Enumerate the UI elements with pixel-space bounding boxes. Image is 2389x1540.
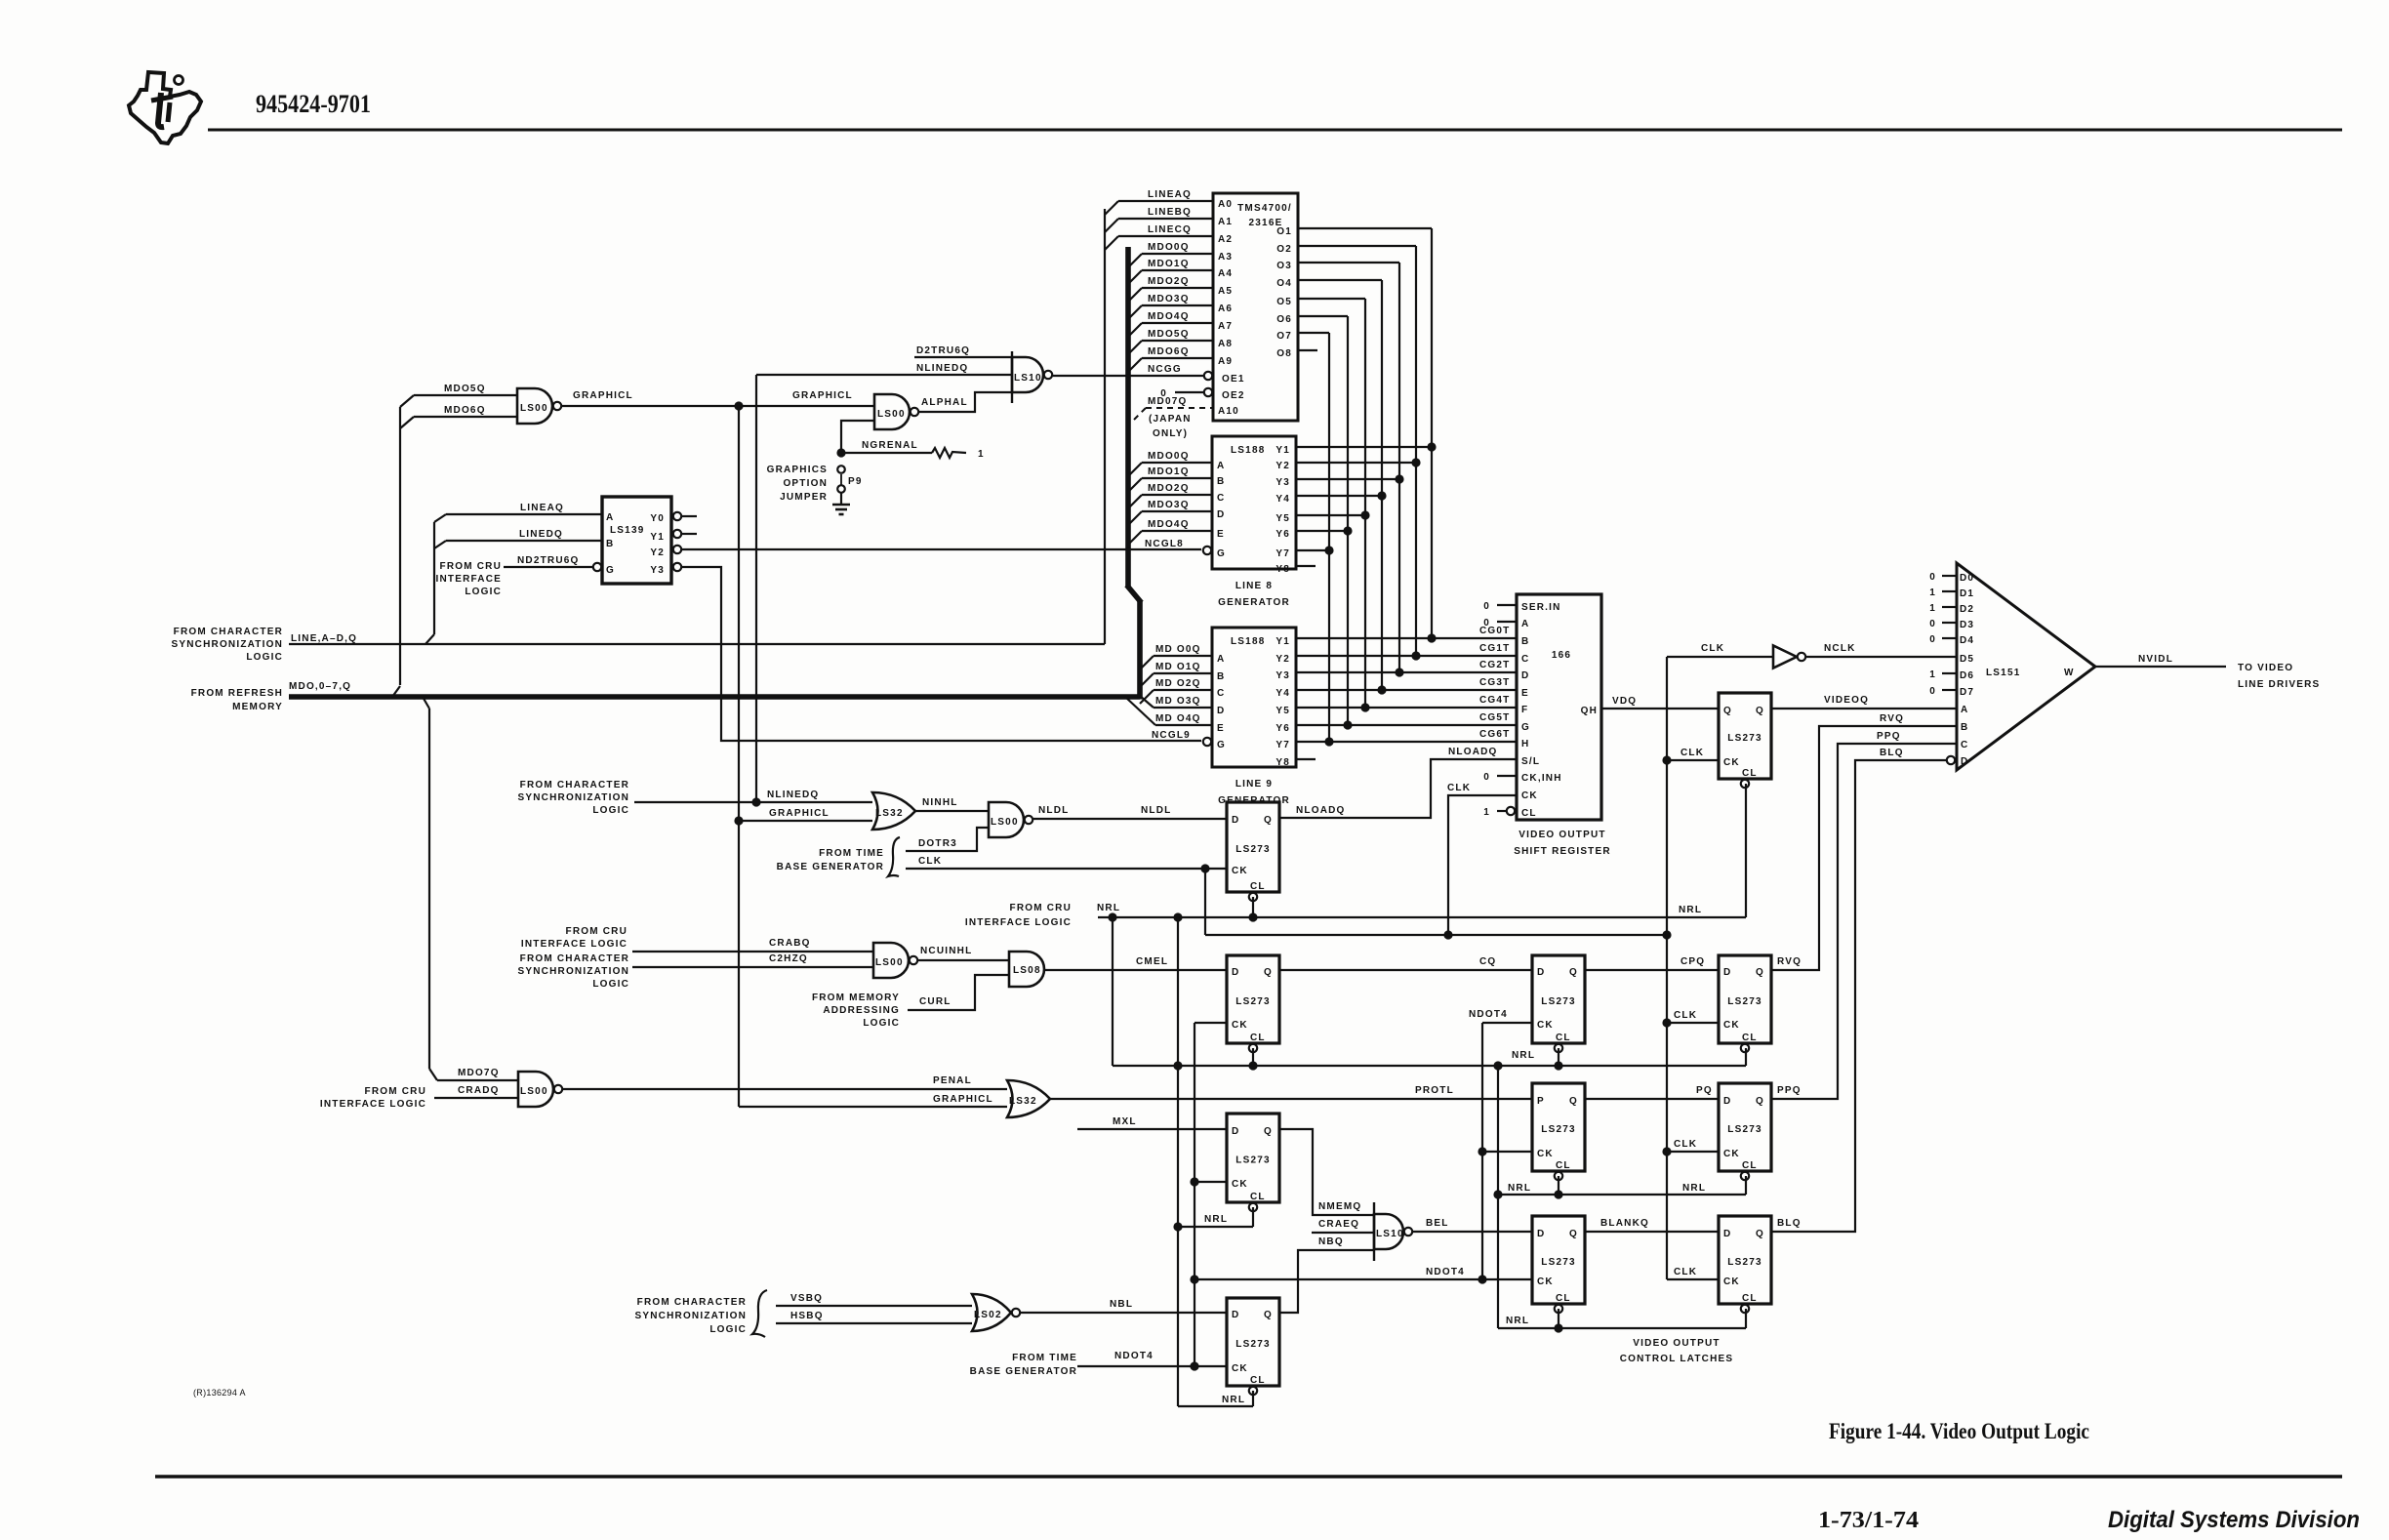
svg-text:LS273: LS273	[1235, 844, 1270, 855]
svg-text:CL: CL	[1250, 1192, 1266, 1202]
svg-text:MD O3Q: MD O3Q	[1155, 696, 1201, 707]
svg-text:BLQ: BLQ	[1880, 748, 1904, 758]
svg-text:Y5: Y5	[1275, 706, 1290, 716]
svg-text:MDO2Q: MDO2Q	[1148, 483, 1190, 494]
svg-text:FROM CHARACTER: FROM CHARACTER	[174, 627, 283, 637]
svg-text:GRAPHICL: GRAPHICL	[573, 390, 633, 401]
svg-text:C2HZQ: C2HZQ	[769, 953, 808, 964]
svg-text:0: 0	[1929, 686, 1936, 697]
svg-text:Q: Q	[1569, 1229, 1578, 1239]
svg-text:1: 1	[1929, 588, 1936, 598]
svg-text:LINEDQ: LINEDQ	[519, 529, 563, 540]
svg-text:P9: P9	[848, 476, 863, 487]
svg-text:G: G	[606, 565, 615, 576]
svg-text:G: G	[1521, 722, 1530, 733]
svg-text:D3: D3	[1960, 620, 1974, 630]
svg-text:B: B	[606, 539, 614, 549]
svg-text:LINE DRIVERS: LINE DRIVERS	[2238, 679, 2320, 690]
svg-text:CLK: CLK	[1674, 1267, 1697, 1277]
svg-text:MDO7Q: MDO7Q	[458, 1068, 500, 1078]
svg-text:SYNCHRONIZATION: SYNCHRONIZATION	[518, 966, 629, 977]
svg-text:D5: D5	[1960, 654, 1974, 665]
svg-text:CL: CL	[1742, 1033, 1758, 1043]
svg-text:LS273: LS273	[1235, 1339, 1270, 1350]
svg-text:CL: CL	[1521, 808, 1537, 819]
svg-text:CLK: CLK	[1680, 748, 1704, 758]
svg-text:Q: Q	[1756, 1229, 1764, 1239]
svg-text:Q: Q	[1756, 1096, 1764, 1107]
svg-text:H: H	[1521, 739, 1529, 750]
svg-text:LS02: LS02	[974, 1310, 1002, 1320]
svg-text:P: P	[1537, 1096, 1545, 1107]
svg-text:FROM CRU: FROM CRU	[440, 561, 502, 572]
svg-text:LINE 9: LINE 9	[1235, 779, 1273, 790]
svg-text:0: 0	[1483, 601, 1490, 612]
svg-text:D1: D1	[1960, 588, 1974, 599]
svg-text:Y0: Y0	[650, 513, 665, 524]
svg-text:Y6: Y6	[1275, 723, 1290, 734]
svg-text:INTERFACE LOGIC: INTERFACE LOGIC	[320, 1099, 426, 1110]
svg-text:LS00: LS00	[991, 817, 1019, 828]
svg-text:MD O1Q: MD O1Q	[1155, 662, 1201, 672]
svg-text:MDO4Q: MDO4Q	[1148, 519, 1190, 530]
svg-text:LS273: LS273	[1235, 1155, 1270, 1166]
svg-text:Y4: Y4	[1275, 494, 1290, 505]
svg-text:OE1: OE1	[1222, 374, 1245, 385]
svg-text:GRAPHICL: GRAPHICL	[769, 808, 830, 819]
svg-text:MDO1Q: MDO1Q	[1148, 259, 1190, 269]
svg-text:S/L: S/L	[1521, 756, 1540, 767]
svg-text:Y2: Y2	[1275, 654, 1290, 665]
svg-text:D2: D2	[1960, 604, 1974, 615]
svg-text:VDQ: VDQ	[1612, 696, 1637, 707]
svg-text:NGRENAL: NGRENAL	[862, 440, 918, 451]
svg-text:CLK: CLK	[918, 856, 942, 867]
svg-text:A: A	[1217, 461, 1225, 471]
svg-text:D0: D0	[1960, 573, 1974, 584]
svg-text:LINECQ: LINECQ	[1148, 224, 1192, 235]
svg-text:D: D	[1723, 1096, 1731, 1107]
svg-text:Y1: Y1	[1275, 445, 1290, 456]
svg-text:MDO6Q: MDO6Q	[1148, 346, 1190, 357]
svg-text:NCGG: NCGG	[1148, 364, 1182, 375]
svg-text:FROM REFRESH: FROM REFRESH	[191, 688, 283, 699]
svg-text:CK: CK	[1232, 1020, 1248, 1031]
svg-text:A3: A3	[1218, 252, 1233, 263]
svg-text:Y3: Y3	[1275, 477, 1290, 488]
svg-text:1: 1	[978, 449, 985, 460]
svg-text:MDO0Q: MDO0Q	[1148, 242, 1190, 253]
svg-text:G: G	[1217, 740, 1226, 750]
svg-text:A7: A7	[1218, 321, 1233, 332]
svg-text:LS273: LS273	[1235, 996, 1270, 1007]
svg-text:D: D	[1537, 1229, 1545, 1239]
svg-text:CK: CK	[1723, 757, 1740, 768]
svg-text:INTERFACE: INTERFACE	[436, 574, 502, 585]
svg-text:Figure 1-44. Video Output Log: Figure 1-44. Video Output Logic	[1829, 1419, 2089, 1443]
svg-text:ONLY): ONLY)	[1153, 428, 1188, 439]
svg-text:BLQ: BLQ	[1777, 1218, 1802, 1229]
svg-text:MDO6Q: MDO6Q	[444, 405, 486, 416]
svg-text:ND2TRU6Q: ND2TRU6Q	[517, 555, 580, 566]
svg-text:(JAPAN: (JAPAN	[1149, 414, 1192, 425]
svg-text:CK: CK	[1232, 1363, 1248, 1374]
svg-text:O7: O7	[1276, 331, 1292, 342]
svg-text:CLK: CLK	[1674, 1139, 1697, 1150]
svg-text:LOGIC: LOGIC	[592, 805, 629, 816]
svg-text:Y8: Y8	[1275, 757, 1290, 768]
svg-text:CONTROL LATCHES: CONTROL LATCHES	[1620, 1354, 1734, 1364]
svg-text:D: D	[1217, 509, 1225, 520]
svg-text:C: C	[1217, 688, 1225, 699]
svg-text:0: 0	[1929, 619, 1936, 629]
svg-text:Y1: Y1	[650, 532, 665, 543]
svg-text:MXL: MXL	[1113, 1116, 1137, 1127]
svg-text:LS273: LS273	[1727, 1257, 1761, 1268]
svg-text:OPTION: OPTION	[783, 478, 828, 489]
svg-text:NRL: NRL	[1679, 905, 1702, 915]
svg-text:Q: Q	[1264, 1126, 1273, 1137]
svg-text:Y1: Y1	[1275, 636, 1290, 647]
svg-text:FROM MEMORY: FROM MEMORY	[812, 993, 900, 1003]
svg-text:VIDEOQ: VIDEOQ	[1824, 695, 1869, 706]
svg-text:CK: CK	[1232, 866, 1248, 876]
svg-text:A9: A9	[1218, 356, 1233, 367]
svg-text:Y7: Y7	[1275, 740, 1290, 750]
svg-text:INTERFACE LOGIC: INTERFACE LOGIC	[965, 917, 1072, 928]
svg-text:LS188: LS188	[1231, 445, 1265, 456]
svg-text:CG6T: CG6T	[1479, 729, 1510, 740]
svg-text:D: D	[1232, 815, 1239, 826]
svg-text:O6: O6	[1276, 314, 1292, 325]
svg-text:NRL: NRL	[1508, 1183, 1531, 1194]
svg-text:A1: A1	[1218, 217, 1233, 227]
svg-text:A0: A0	[1218, 199, 1233, 210]
svg-text:E: E	[1521, 688, 1529, 699]
svg-text:Y3: Y3	[650, 565, 665, 576]
svg-text:NLDL: NLDL	[1141, 805, 1171, 816]
svg-text:D: D	[1232, 1126, 1239, 1137]
svg-text:A: A	[606, 512, 614, 523]
svg-text:D2TRU6Q: D2TRU6Q	[916, 345, 970, 356]
svg-text:B: B	[1217, 476, 1225, 487]
svg-text:D: D	[1537, 967, 1545, 978]
svg-text:NLDL: NLDL	[1038, 805, 1069, 816]
svg-text:BLANKQ: BLANKQ	[1600, 1218, 1649, 1229]
svg-text:CK: CK	[1232, 1179, 1248, 1190]
svg-text:NLINEDQ: NLINEDQ	[767, 790, 819, 800]
svg-text:CK: CK	[1537, 1277, 1554, 1287]
svg-text:HSBQ: HSBQ	[790, 1311, 824, 1321]
svg-text:MD O2Q: MD O2Q	[1155, 678, 1201, 689]
svg-text:CL: CL	[1250, 1375, 1266, 1386]
svg-text:0: 0	[1929, 634, 1936, 645]
svg-text:Digital Systems Division: Digital Systems Division	[2108, 1507, 2360, 1533]
svg-text:LOGIC: LOGIC	[863, 1018, 900, 1029]
svg-text:LOGIC: LOGIC	[465, 587, 502, 597]
svg-text:CLK: CLK	[1674, 1010, 1697, 1021]
svg-text:TMS4700/: TMS4700/	[1237, 203, 1292, 214]
svg-text:LINEAQ: LINEAQ	[520, 503, 564, 513]
svg-text:LOGIC: LOGIC	[709, 1324, 747, 1335]
svg-text:LS273: LS273	[1727, 996, 1761, 1007]
svg-text:O8: O8	[1276, 348, 1292, 359]
svg-text:Y7: Y7	[1275, 548, 1290, 559]
svg-text:RVQ: RVQ	[1777, 956, 1802, 967]
svg-text:O4: O4	[1276, 278, 1292, 289]
svg-text:1: 1	[1929, 669, 1936, 680]
svg-text:NCUINHL: NCUINHL	[920, 946, 972, 956]
svg-text:SHIFT REGISTER: SHIFT REGISTER	[1514, 846, 1611, 857]
svg-text:CG3T: CG3T	[1479, 677, 1510, 688]
svg-text:GENERATOR: GENERATOR	[1218, 597, 1290, 608]
svg-text:FROM TIME: FROM TIME	[819, 848, 884, 859]
svg-text:A: A	[1521, 619, 1529, 629]
svg-text:CK: CK	[1521, 790, 1538, 801]
svg-text:LS32: LS32	[1009, 1096, 1037, 1107]
svg-text:RVQ: RVQ	[1880, 713, 1904, 724]
svg-text:D: D	[1521, 670, 1529, 681]
svg-text:B: B	[1521, 636, 1529, 647]
svg-text:MD O4Q: MD O4Q	[1155, 713, 1201, 724]
svg-text:CK,INH: CK,INH	[1521, 773, 1562, 784]
svg-text:NDOT4: NDOT4	[1426, 1267, 1465, 1277]
svg-text:LS151: LS151	[1986, 668, 2020, 678]
svg-text:PPQ: PPQ	[1777, 1085, 1802, 1096]
svg-text:NRL: NRL	[1512, 1050, 1535, 1061]
svg-text:LS00: LS00	[875, 957, 904, 968]
svg-text:PENAL: PENAL	[933, 1075, 972, 1086]
svg-text:PQ: PQ	[1696, 1085, 1713, 1096]
svg-text:Y4: Y4	[1275, 688, 1290, 699]
svg-text:Q: Q	[1569, 967, 1578, 978]
svg-text:LS10: LS10	[1014, 373, 1042, 384]
svg-text:NCGL8: NCGL8	[1145, 539, 1184, 549]
svg-text:FROM CRU: FROM CRU	[365, 1086, 426, 1097]
svg-text:NRL: NRL	[1506, 1316, 1529, 1326]
svg-text:D6: D6	[1960, 670, 1974, 681]
svg-text:MD O0Q: MD O0Q	[1155, 644, 1201, 655]
svg-text:Y2: Y2	[1275, 461, 1290, 471]
svg-text:MDO5Q: MDO5Q	[444, 384, 486, 394]
svg-text:QH: QH	[1581, 706, 1598, 716]
svg-text:CG5T: CG5T	[1479, 712, 1510, 723]
svg-text:LOGIC: LOGIC	[246, 652, 283, 663]
svg-text:0: 0	[1929, 572, 1936, 583]
svg-text:BASE GENERATOR: BASE GENERATOR	[970, 1366, 1077, 1377]
svg-text:NINHL: NINHL	[922, 797, 958, 808]
svg-text:NRL: NRL	[1682, 1183, 1706, 1194]
svg-text:MDO4Q: MDO4Q	[1148, 311, 1190, 322]
svg-text:NCLK: NCLK	[1824, 643, 1856, 654]
svg-text:CLK: CLK	[1447, 783, 1471, 793]
svg-text:BEL: BEL	[1426, 1218, 1449, 1229]
svg-text:Q: Q	[1723, 706, 1732, 716]
svg-text:Y5: Y5	[1275, 513, 1290, 524]
svg-text:CK: CK	[1537, 1020, 1554, 1031]
svg-text:CG1T: CG1T	[1479, 643, 1510, 654]
svg-text:D: D	[1232, 1310, 1239, 1320]
svg-text:O3: O3	[1276, 261, 1292, 271]
svg-text:LS00: LS00	[520, 1086, 548, 1097]
svg-text:D4: D4	[1960, 635, 1974, 646]
svg-text:LS32: LS32	[875, 808, 904, 819]
svg-text:LS10: LS10	[1376, 1229, 1404, 1239]
svg-text:SYNCHRONIZATION: SYNCHRONIZATION	[172, 639, 283, 650]
svg-text:NLOADQ: NLOADQ	[1448, 747, 1498, 757]
svg-text:LS273: LS273	[1541, 996, 1575, 1007]
svg-text:CQ: CQ	[1479, 956, 1496, 967]
svg-text:CG2T: CG2T	[1479, 660, 1510, 670]
svg-text:C: C	[1217, 493, 1225, 504]
svg-text:Y8: Y8	[1275, 564, 1290, 575]
svg-text:C: C	[1521, 654, 1529, 665]
svg-text:O1: O1	[1276, 226, 1292, 237]
svg-text:NRL: NRL	[1222, 1395, 1245, 1405]
svg-text:D: D	[1217, 706, 1225, 716]
svg-text:Q: Q	[1756, 967, 1764, 978]
svg-text:CURL: CURL	[919, 996, 952, 1007]
svg-text:MEMORY: MEMORY	[232, 702, 283, 712]
svg-text:SYNCHRONIZATION: SYNCHRONIZATION	[635, 1311, 747, 1321]
svg-text:(R)136294 A: (R)136294 A	[193, 1388, 246, 1398]
svg-text:O5: O5	[1276, 297, 1292, 307]
svg-text:NRL: NRL	[1204, 1214, 1228, 1225]
svg-text:LINE 8: LINE 8	[1235, 581, 1273, 591]
svg-text:NDOT4: NDOT4	[1469, 1009, 1508, 1020]
svg-text:G: G	[1217, 548, 1226, 559]
svg-text:MDO2Q: MDO2Q	[1148, 276, 1190, 287]
svg-text:INTERFACE LOGIC: INTERFACE LOGIC	[521, 939, 628, 950]
svg-text:CK: CK	[1723, 1277, 1740, 1287]
svg-text:NLOADQ: NLOADQ	[1296, 805, 1346, 816]
svg-text:FROM CRU: FROM CRU	[1010, 903, 1072, 913]
svg-text:LINEAQ: LINEAQ	[1148, 189, 1192, 200]
svg-text:LS273: LS273	[1541, 1124, 1575, 1135]
svg-text:LINE,A–D,Q: LINE,A–D,Q	[291, 633, 357, 644]
svg-text:JUMPER: JUMPER	[780, 492, 828, 503]
svg-text:NRL: NRL	[1097, 903, 1120, 913]
svg-text:MD07Q: MD07Q	[1148, 396, 1187, 407]
svg-text:B: B	[1217, 671, 1225, 682]
svg-text:GRAPHICL: GRAPHICL	[933, 1094, 993, 1105]
svg-text:LS273: LS273	[1541, 1257, 1575, 1268]
svg-text:LS139: LS139	[610, 525, 644, 536]
svg-text:CLK: CLK	[1701, 643, 1724, 654]
svg-text:LS00: LS00	[877, 409, 906, 420]
svg-text:MDO1Q: MDO1Q	[1148, 466, 1190, 477]
svg-text:NMEMQ: NMEMQ	[1318, 1201, 1361, 1212]
svg-text:CK: CK	[1723, 1020, 1740, 1031]
svg-text:LS08: LS08	[1013, 965, 1041, 976]
svg-text:MDO3Q: MDO3Q	[1148, 294, 1190, 304]
svg-text:MDO3Q: MDO3Q	[1148, 500, 1190, 510]
svg-text:CL: CL	[1742, 768, 1758, 779]
svg-text:CL: CL	[1742, 1293, 1758, 1304]
svg-text:Y3: Y3	[1275, 670, 1290, 681]
svg-text:CL: CL	[1556, 1033, 1571, 1043]
svg-text:BASE GENERATOR: BASE GENERATOR	[777, 862, 884, 872]
svg-text:NBQ: NBQ	[1318, 1236, 1344, 1247]
svg-text:CRABQ: CRABQ	[769, 938, 811, 949]
svg-text:CG4T: CG4T	[1479, 695, 1510, 706]
svg-text:E: E	[1217, 723, 1225, 734]
svg-text:A4: A4	[1218, 268, 1233, 279]
svg-text:F: F	[1521, 705, 1528, 715]
svg-text:SYNCHRONIZATION: SYNCHRONIZATION	[518, 792, 629, 803]
svg-text:0: 0	[1483, 772, 1490, 783]
svg-text:A: A	[1961, 705, 1968, 715]
svg-text:A6: A6	[1218, 304, 1233, 314]
svg-text:166: 166	[1552, 650, 1571, 661]
svg-text:A2: A2	[1218, 234, 1233, 245]
svg-text:TO VIDEO: TO VIDEO	[2238, 663, 2293, 673]
svg-text:1: 1	[1483, 807, 1490, 818]
svg-text:CRAEQ: CRAEQ	[1318, 1219, 1359, 1230]
svg-text:A: A	[1217, 654, 1225, 665]
svg-text:MDO5Q: MDO5Q	[1148, 329, 1190, 340]
svg-text:FROM CRU: FROM CRU	[566, 926, 628, 937]
svg-text:DOTR3: DOTR3	[918, 838, 957, 849]
svg-text:W: W	[2064, 668, 2075, 678]
svg-text:945424-9701: 945424-9701	[256, 90, 371, 118]
svg-text:Y2: Y2	[650, 547, 665, 558]
svg-text:D: D	[1723, 1229, 1731, 1239]
svg-text:VIDEO OUTPUT: VIDEO OUTPUT	[1633, 1338, 1720, 1349]
svg-text:FROM CHARACTER: FROM CHARACTER	[520, 780, 629, 790]
svg-text:A5: A5	[1218, 286, 1233, 297]
svg-text:LS188: LS188	[1231, 636, 1265, 647]
svg-text:CL: CL	[1250, 1033, 1266, 1043]
svg-text:ADDRESSING: ADDRESSING	[823, 1005, 900, 1016]
svg-text:VIDEO OUTPUT: VIDEO OUTPUT	[1518, 830, 1605, 840]
svg-text:CMEL: CMEL	[1136, 956, 1168, 967]
svg-text:Q: Q	[1569, 1096, 1578, 1107]
svg-text:Q: Q	[1264, 1310, 1273, 1320]
svg-text:D: D	[1232, 967, 1239, 978]
svg-text:A8: A8	[1218, 339, 1233, 349]
svg-text:CL: CL	[1742, 1160, 1758, 1171]
svg-text:FROM CHARACTER: FROM CHARACTER	[637, 1297, 747, 1308]
svg-text:LS00: LS00	[520, 403, 548, 414]
svg-text:C: C	[1961, 740, 1968, 750]
svg-text:Q: Q	[1264, 815, 1273, 826]
svg-text:CL: CL	[1250, 881, 1266, 892]
svg-text:CK: CK	[1537, 1149, 1554, 1159]
svg-text:CPQ: CPQ	[1680, 956, 1705, 967]
svg-text:Q: Q	[1264, 967, 1273, 978]
svg-text:E: E	[1217, 529, 1225, 540]
svg-text:NBL: NBL	[1110, 1299, 1133, 1310]
svg-text:0: 0	[1483, 618, 1490, 628]
svg-text:SER.IN: SER.IN	[1521, 602, 1561, 613]
svg-text:PPQ: PPQ	[1877, 731, 1901, 742]
svg-text:CL: CL	[1556, 1293, 1571, 1304]
svg-text:CL: CL	[1556, 1160, 1571, 1171]
svg-text:D: D	[1723, 967, 1731, 978]
svg-text:PROTL: PROTL	[1415, 1085, 1454, 1096]
svg-text:FROM CHARACTER: FROM CHARACTER	[520, 953, 629, 964]
svg-text:D: D	[1961, 756, 1968, 767]
svg-text:VSBQ: VSBQ	[790, 1293, 823, 1304]
svg-text:MDO,0–7,Q: MDO,0–7,Q	[289, 681, 351, 692]
svg-text:CK: CK	[1723, 1149, 1740, 1159]
svg-text:LOGIC: LOGIC	[592, 979, 629, 990]
svg-text:1-73/1-74: 1-73/1-74	[1818, 1508, 1919, 1533]
svg-text:LS273: LS273	[1727, 1124, 1761, 1135]
svg-text:GRAPHICL: GRAPHICL	[792, 390, 853, 401]
svg-text:LS273: LS273	[1727, 733, 1761, 744]
